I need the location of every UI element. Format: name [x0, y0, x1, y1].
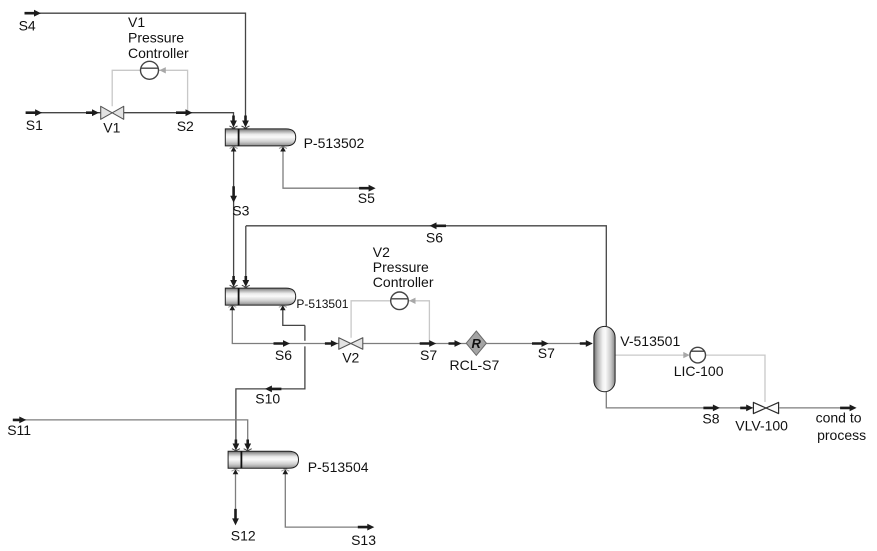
svg-text:V-513501: V-513501	[620, 333, 680, 349]
svg-text:Controller: Controller	[128, 45, 189, 61]
svg-text:V2: V2	[342, 350, 359, 366]
svg-text:RCL-S7: RCL-S7	[450, 357, 500, 373]
svg-text:S11: S11	[7, 422, 31, 438]
svg-text:S2: S2	[177, 118, 194, 134]
svg-text:process: process	[817, 427, 866, 443]
svg-text:Pressure: Pressure	[128, 30, 184, 46]
svg-text:cond to: cond to	[816, 410, 862, 426]
svg-text:VLV-100: VLV-100	[735, 418, 788, 434]
svg-text:S7: S7	[538, 345, 555, 361]
svg-text:S8: S8	[702, 410, 719, 426]
svg-text:S6: S6	[275, 347, 292, 363]
svg-text:S1: S1	[26, 117, 43, 133]
svg-text:P-513504: P-513504	[308, 459, 369, 475]
svg-text:S10: S10	[255, 391, 280, 407]
svg-text:S6: S6	[426, 230, 443, 246]
svg-text:P-513501: P-513501	[296, 297, 348, 311]
svg-text:LIC-100: LIC-100	[674, 363, 724, 379]
svg-text:V2: V2	[373, 244, 390, 260]
svg-text:S7: S7	[420, 347, 437, 363]
svg-text:S4: S4	[19, 18, 36, 34]
svg-text:V1: V1	[103, 120, 120, 136]
svg-text:S13: S13	[351, 532, 376, 548]
svg-text:P-513502: P-513502	[304, 135, 365, 151]
svg-text:R: R	[472, 336, 482, 351]
svg-text:V1: V1	[128, 14, 145, 30]
svg-text:Controller: Controller	[373, 274, 434, 290]
svg-text:Pressure: Pressure	[373, 259, 429, 275]
svg-text:S5: S5	[358, 190, 375, 206]
svg-text:S12: S12	[231, 527, 256, 543]
svg-text:S3: S3	[232, 203, 249, 219]
